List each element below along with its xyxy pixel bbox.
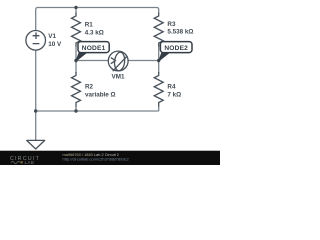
node NODE1 flag tail	[76, 52, 87, 61]
junction dot at R2 bottom	[74, 109, 77, 112]
resistor R3	[154, 13, 163, 47]
resistor R4	[154, 72, 163, 107]
svg-text:variable Ω: variable Ω	[85, 92, 116, 99]
junction dot node A	[74, 59, 77, 62]
junction dot at ground tap	[34, 109, 37, 112]
ground	[27, 140, 45, 149]
svg-text:NODE2: NODE2	[164, 45, 188, 52]
wire NODE1 junction down to R2	[75, 61, 77, 74]
voltage source V1	[26, 31, 46, 51]
svg-text:NODE1: NODE1	[82, 45, 106, 52]
node NODE1 label box	[78, 42, 109, 53]
svg-text:5.538 kΩ: 5.538 kΩ	[167, 29, 193, 36]
node NODE2 flag tail	[159, 52, 170, 61]
junction dot at R1 top	[74, 6, 77, 9]
svg-text:R1: R1	[85, 22, 94, 29]
svg-text:10 V: 10 V	[48, 41, 62, 48]
svg-text:R3: R3	[167, 21, 176, 28]
wire NODE2 junction down to R4	[158, 61, 160, 74]
svg-text:V1: V1	[48, 33, 56, 40]
wire left rail V1 bottom to ground node	[35, 50, 37, 111]
wire VM1 right to NODE2 junction	[128, 60, 159, 62]
svg-text:http://circuitlab.com/c2h37d88: http://circuitlab.com/c2h37d887893c2	[63, 156, 130, 161]
svg-text:R4: R4	[167, 84, 176, 91]
wire top rail from V1 to R1 to R3	[36, 8, 159, 31]
node NODE2 label box	[160, 42, 192, 53]
footer logo wave	[11, 161, 20, 163]
wire R1 top stub	[75, 8, 77, 14]
wire R3 bottom to NODE2 junction	[158, 46, 160, 61]
svg-text:7 kΩ: 7 kΩ	[167, 92, 181, 99]
resistor R1	[72, 13, 81, 47]
wire R4 bottom stub	[158, 106, 160, 111]
wire NODE1 junction to VM1 left	[76, 60, 109, 62]
resistor R2	[72, 72, 81, 107]
wire ground drop	[35, 111, 37, 140]
wire bottom rail	[36, 110, 159, 112]
svg-text:4.3 kΩ: 4.3 kΩ	[85, 29, 104, 36]
svg-text:LAB: LAB	[25, 160, 35, 165]
voltmeter VM1	[108, 51, 128, 71]
svg-text:VM1: VM1	[112, 74, 125, 81]
junction dot node B	[157, 59, 160, 62]
wire R1 bottom to NODE1 junction	[75, 46, 77, 61]
svg-text:R2: R2	[85, 84, 94, 91]
footer bar	[0, 151, 220, 165]
wire R2 bottom stub	[75, 106, 77, 111]
footer logo amber mark	[21, 161, 23, 163]
